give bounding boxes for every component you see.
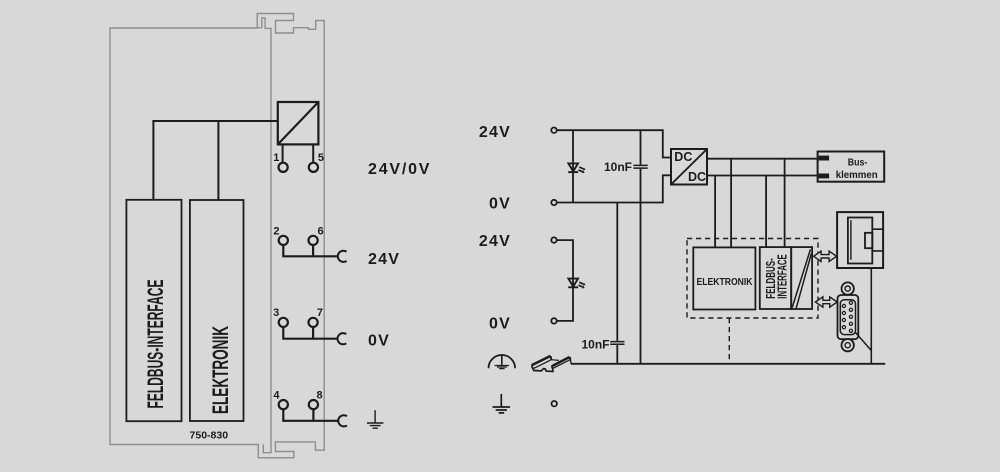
clamp contact earth <box>338 415 347 426</box>
clamp contact 0V <box>338 333 347 344</box>
terminal circle 3 <box>279 318 288 327</box>
clamp contact 24V <box>338 251 347 262</box>
RJ45 connector icon <box>837 212 883 268</box>
terminal circle 6 <box>309 236 318 245</box>
LED D2 <box>568 279 585 289</box>
svg-text:1: 1 <box>273 152 279 164</box>
wire terminals 2/6 to 24V clamp <box>283 245 338 256</box>
svg-text:ELEKTRONIK: ELEKTRONIK <box>208 326 233 414</box>
capacitor C2 plates <box>610 342 624 345</box>
terminal circle 1 <box>279 163 288 172</box>
svg-text:3: 3 <box>273 307 279 319</box>
bus terminal pad 1 <box>819 156 830 161</box>
svg-text:24V/0V: 24V/0V <box>368 161 431 178</box>
capacitor C2 branch wire <box>616 203 618 364</box>
svg-text:10nF: 10nF <box>604 160 632 174</box>
wire terminals 3/7 to 0V clamp <box>283 327 337 339</box>
svg-text:750-830: 750-830 <box>190 430 229 442</box>
svg-text:DC: DC <box>674 150 692 164</box>
svg-text:7: 7 <box>317 307 323 319</box>
box ELEKTRONIK (schematic) <box>693 247 755 309</box>
terminal node 24V field <box>551 237 556 242</box>
wire D-sub to earth rail <box>856 333 872 351</box>
svg-text:24V: 24V <box>479 124 511 141</box>
svg-text:10nF: 10nF <box>581 338 609 352</box>
supply block diagonal <box>278 102 319 144</box>
terminal node 0V field <box>551 318 556 323</box>
terminal circle 4 <box>279 400 288 409</box>
capacitor C1 branch wire <box>640 130 642 364</box>
wire LED1 branch <box>572 130 574 202</box>
supply block (box with diagonal) <box>278 102 319 144</box>
wire from internal boxes to supply block <box>153 121 277 200</box>
terminal circle 5 <box>309 163 318 172</box>
module inner rail / latch hook lines <box>257 18 271 453</box>
LED D1 <box>568 163 585 173</box>
svg-text:6: 6 <box>318 225 324 237</box>
svg-text:Bus-: Bus- <box>848 157 868 169</box>
ground symbol (module terminal 4/8) <box>367 410 384 428</box>
wire 0V rail to DC/DC input <box>557 175 671 202</box>
svg-text:FELDBUS-INTERFACE: FELDBUS-INTERFACE <box>143 280 168 409</box>
box FELDBUS-INTERFACE <box>126 200 181 421</box>
svg-text:INTERFACE: INTERFACE <box>775 254 790 299</box>
wire terminals 4/8 to earth clamp <box>283 409 338 421</box>
dashed stem to earth rail <box>728 318 730 364</box>
pin stems 1 and 5 <box>283 144 314 163</box>
DC/DC converter U1 <box>671 149 707 185</box>
svg-text:4: 4 <box>273 389 280 401</box>
earth rail (bottom) <box>571 363 885 365</box>
terminal circle 8 <box>309 400 318 409</box>
protective earth with shield arc <box>489 355 516 368</box>
wire drops to electronics <box>715 159 785 248</box>
svg-text:24V: 24V <box>479 233 511 250</box>
bus terminal pad 2 <box>819 174 830 179</box>
D-sub 9 connector icon <box>838 282 859 351</box>
dashed enclosure (coupler electronics) <box>687 239 818 319</box>
box FELDBUS-INTERFACE (schematic) <box>760 247 791 309</box>
isolation diagonals <box>792 249 811 308</box>
svg-text:0V: 0V <box>489 316 511 333</box>
terminal node 24V system <box>551 128 556 133</box>
terminal circle 2 <box>279 236 288 245</box>
svg-text:0V: 0V <box>489 196 511 213</box>
svg-text:5: 5 <box>318 152 324 164</box>
svg-text:2: 2 <box>273 225 279 237</box>
box ELEKTRONIK <box>190 200 244 421</box>
DIN rail icon <box>532 356 572 372</box>
arrow to service connector (bottom) <box>815 297 837 307</box>
svg-text:0V: 0V <box>368 333 390 350</box>
svg-text:24V: 24V <box>368 251 400 268</box>
svg-text:ELEKTRONIK: ELEKTRONIK <box>697 277 754 288</box>
wire DC/DC outputs to bus terminals <box>707 159 818 176</box>
module body outline with DIN-rail latch profile <box>110 14 324 458</box>
capacitor C1 plates <box>633 165 647 168</box>
DC/DC diagonal <box>672 150 707 185</box>
terminal node 0V system <box>551 200 556 205</box>
wire LED2 branch <box>557 240 573 321</box>
wire 24V rail to DC/DC input <box>557 130 671 157</box>
arrow to fieldbus connector (top) <box>814 251 837 261</box>
box Bus-klemmen <box>818 152 885 182</box>
isolation block (box with double diagonal) <box>791 247 812 309</box>
terminal circle 7 <box>309 318 318 327</box>
svg-text:8: 8 <box>317 389 323 401</box>
svg-text:klemmen: klemmen <box>836 169 878 181</box>
wire RJ45 to earth rail <box>870 268 872 364</box>
functional earth symbol (bottom) <box>493 394 511 413</box>
svg-text:DC: DC <box>688 170 706 184</box>
terminal node earth <box>552 401 557 406</box>
